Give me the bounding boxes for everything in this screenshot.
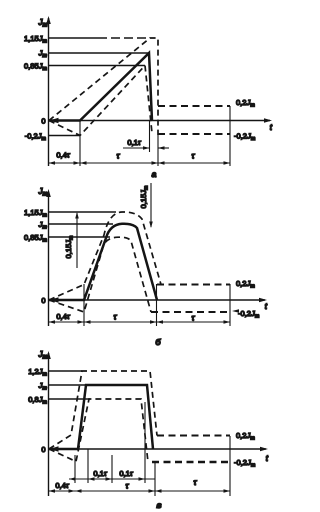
- small arrow at -0.2 end plot b: [232, 309, 239, 313]
- y-axis arrowhead plot a: [46, 16, 51, 24]
- t-axis arrowhead plot a: [264, 118, 272, 123]
- lower tolerance dashed ramp plot a: [49, 66, 152, 136]
- lower tolerance dashed bell plot b: [49, 237, 151, 312]
- t-axis plot a: [49, 120, 271, 122]
- dim arrows 0,4tau plot c: [49, 489, 56, 493]
- extension line x=156.5 plot b: [156, 284, 158, 326]
- extension line x=230 plot c: [229, 436, 231, 496]
- svg-text:б: б: [155, 337, 161, 347]
- dim arrows tau1 plot a: [80, 161, 87, 165]
- extension line x=80 plot a: [79, 121, 81, 167]
- extension line x=149 plot a: [149, 121, 151, 153]
- dim arrows tau2 plot b: [157, 320, 164, 324]
- origin arrowhead plot b: [50, 297, 59, 303]
- main dimension line plot a: [49, 162, 231, 164]
- svg-text:0: 0: [41, 296, 45, 305]
- +0.2 dashed level right plot c: [157, 435, 230, 437]
- t-axis arrowhead plot c: [260, 447, 268, 452]
- -0.2 dashed level right plot a: [158, 133, 230, 135]
- right 0,15Jm dimension arrow plot b: [150, 183, 152, 227]
- PLOT-A: [24, 16, 273, 179]
- 0,1tau dimension arrows plot a: [123, 147, 149, 149]
- y-axis plot b: [48, 192, 50, 326]
- svg-text:0,4τ: 0,4τ: [55, 481, 69, 490]
- PLOT-B: [24, 183, 268, 347]
- -0.2 short level line plot a: [49, 135, 81, 137]
- solid waveform bell plot b: [49, 224, 157, 300]
- svg-text:0,4τ: 0,4τ: [56, 151, 70, 160]
- reference line 0.8Jm plot c: [49, 398, 91, 400]
- reference line 1.15Jm plot a: [49, 37, 99, 39]
- dim arrows tau2 plot c: [155, 489, 162, 493]
- upper tolerance dashed trapezoid plot c: [49, 371, 157, 449]
- upper tolerance dashed ramp plot a: [49, 38, 158, 135]
- extension line x=145 plot c: [144, 402, 146, 483]
- svg-text:0: 0: [41, 117, 45, 126]
- origin arrowhead plot c: [50, 446, 59, 452]
- svg-text:0,4τ: 0,4τ: [56, 312, 70, 321]
- y-axis arrowhead plot c: [46, 351, 51, 359]
- reference line Jm plot c: [49, 384, 87, 386]
- upper tolerance dashed bell plot b: [49, 212, 161, 300]
- main dimension line plot b: [49, 321, 231, 323]
- +0.2 dashed level right plot a: [158, 105, 230, 107]
- t-axis plot c: [49, 448, 267, 450]
- extension line x=112 plot c: [111, 455, 113, 483]
- y-axis plot a: [48, 18, 50, 166]
- left 0,15Jm dimension arrow plot b: [76, 213, 78, 268]
- t-axis plot b: [49, 299, 266, 301]
- svg-text:0: 0: [41, 445, 45, 454]
- reference line 0.85Jm plot b: [49, 236, 111, 238]
- reference line 1.15Jm plot b: [49, 211, 117, 213]
- svg-text:а: а: [152, 169, 157, 179]
- extension line x=75 plot c: [74, 455, 76, 483]
- y-axis plot c: [48, 353, 50, 496]
- svg-text:0,1τ: 0,1τ: [93, 469, 107, 478]
- reference line 0.85Jm plot a: [49, 65, 146, 67]
- extension line x=155 plot c: [154, 462, 156, 496]
- dim arrows tau1 plot b: [84, 320, 91, 324]
- dim arrows 0,4tau plot b: [49, 320, 56, 324]
- extension line x=230 plot a: [229, 106, 231, 166]
- main dimension line plot c: [49, 490, 231, 492]
- 0,1tau dimension line plot c: [69, 478, 155, 480]
- svg-text:в: в: [156, 500, 161, 510]
- -0.2 dashed level right plot b: [151, 311, 230, 313]
- reference line Jm plot b: [49, 223, 114, 225]
- solid waveform trapezoid plot c: [49, 385, 153, 449]
- y-axis arrowhead plot b: [46, 189, 51, 197]
- extension line x=88 plot c: [87, 449, 89, 483]
- origin arrowhead plot a: [50, 118, 59, 124]
- extension line x=84 plot b: [83, 284, 85, 326]
- dim arrows 0,4tau plot a: [49, 161, 56, 165]
- extension line x=158 plot a: [157, 135, 159, 166]
- solid waveform ramp plot a: [49, 53, 152, 121]
- svg-text:0,1τ: 0,1τ: [127, 138, 141, 147]
- +0.2 dashed level right plot b: [157, 284, 230, 286]
- svg-text:0,1τ: 0,1τ: [119, 469, 133, 478]
- extension line x=230 plot b: [229, 284, 231, 326]
- -0.2 dashed level right plot c: [152, 461, 230, 463]
- t-axis arrowhead plot b: [259, 298, 267, 303]
- dim arrows tau1 plot c: [75, 489, 82, 493]
- PLOT-C: [28, 350, 269, 510]
- lower tolerance dashed trapezoid plot c: [49, 399, 148, 462]
- 0,1tau dim arrows plot c: [69, 477, 76, 481]
- reference line Jm plot a: [49, 52, 150, 54]
- dim arrows tau2 plot a: [158, 161, 165, 165]
- reference line 1.2Jm plot c: [49, 370, 83, 372]
